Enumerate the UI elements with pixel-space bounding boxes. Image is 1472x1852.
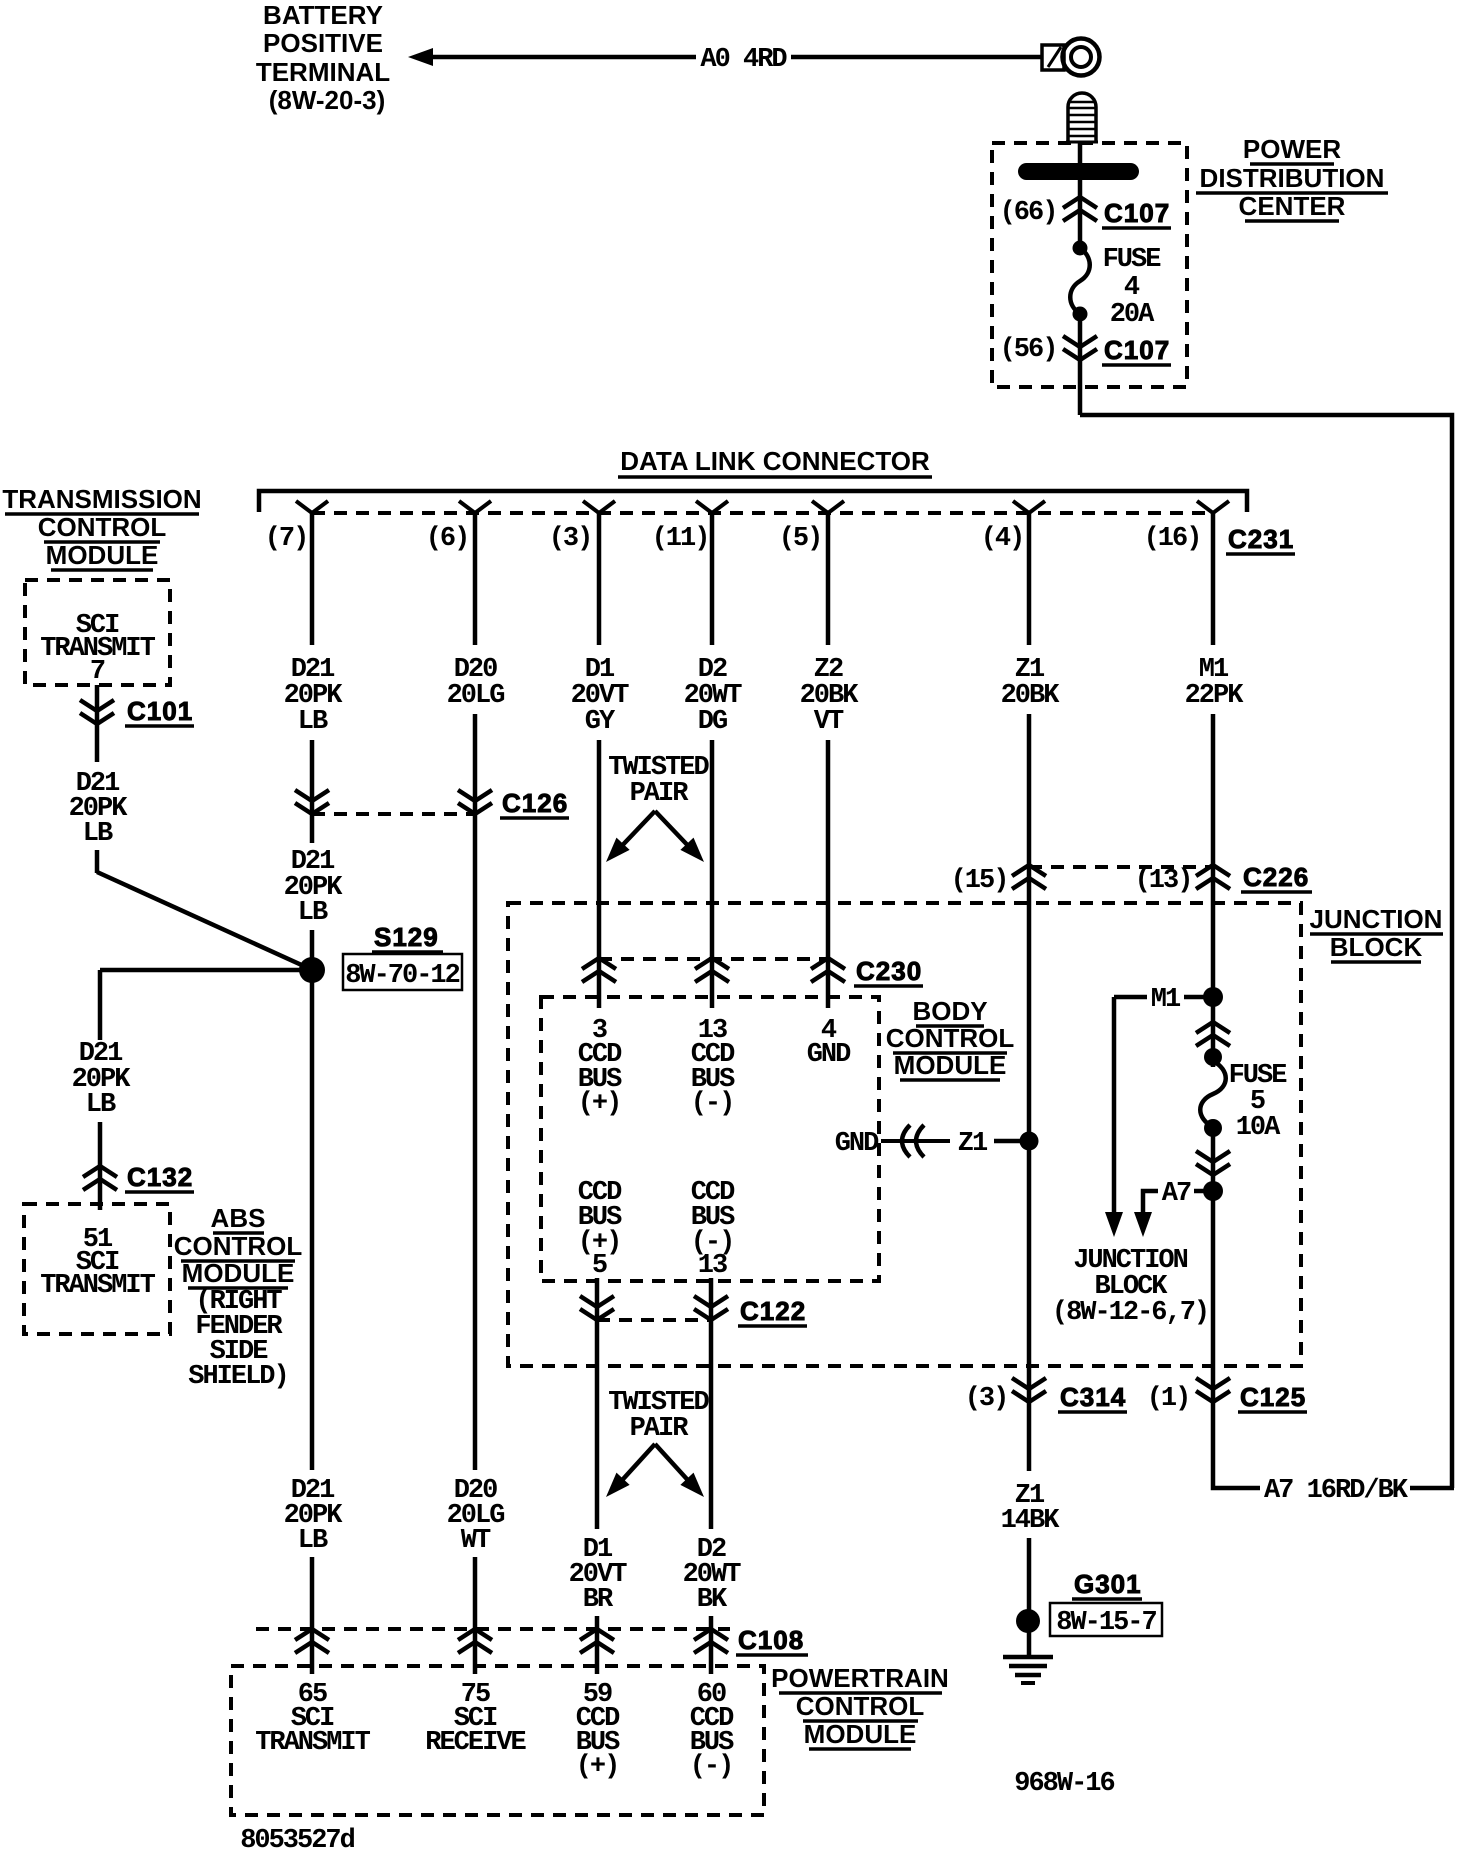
wire to C132 — [98, 1122, 103, 1210]
svg-text:(+): (+) — [576, 1752, 619, 1782]
svg-text:FUSE: FUSE — [1103, 245, 1162, 275]
svg-text:(56): (56) — [1000, 335, 1057, 365]
svg-text:968W-16: 968W-16 — [1014, 1769, 1114, 1799]
wire D21 splice to bottom label — [310, 930, 315, 1470]
wire D2 to C108 — [709, 1616, 714, 1674]
wire A0 4RD right segment — [791, 55, 1042, 60]
ground reference box 8W-15-7 — [1050, 1603, 1162, 1638]
svg-text:C101: C101 — [127, 696, 193, 726]
wire pin 6 long run — [473, 714, 478, 1470]
svg-text:TRANSMIT: TRANSMIT — [255, 1728, 370, 1758]
connector C230 symbol pin 3 — [582, 958, 616, 982]
junction GND on Z1 wire — [1020, 1132, 1039, 1151]
twisted pair callout lower — [608, 1388, 709, 1488]
svg-text:GY: GY — [585, 707, 616, 737]
connector label C314 — [1058, 1382, 1127, 1412]
PCM pin 75 SCI RECEIVE — [425, 1680, 526, 1758]
svg-text:8W-70-12: 8W-70-12 — [345, 961, 459, 991]
TCM pin label SCI TRANSMIT 7 — [40, 611, 155, 687]
transmission control module dashed box — [25, 580, 170, 685]
svg-text:C231: C231 — [1228, 524, 1294, 554]
svg-text:A7 16RD/BK: A7 16RD/BK — [1264, 1476, 1409, 1506]
svg-text:(8W-12-6,7): (8W-12-6,7) — [1052, 1298, 1208, 1328]
svg-text:GND: GND — [835, 1129, 879, 1159]
svg-text:DISTRIBUTION: DISTRIBUTION — [1200, 163, 1385, 193]
ground label G301 — [1072, 1569, 1142, 1599]
connector C122 dashed tie — [597, 1318, 711, 1322]
svg-text:4: 4 — [1124, 273, 1140, 303]
svg-text:14BK: 14BK — [1001, 1506, 1061, 1536]
svg-text:7: 7 — [90, 657, 105, 687]
svg-text:(1): (1) — [1147, 1384, 1190, 1414]
svg-text:(3): (3) — [965, 1384, 1008, 1414]
wire A0 4RD left segment — [429, 55, 696, 60]
connector fuse 5 input symbol — [1196, 1022, 1230, 1046]
fuse 4 bottom junction — [1073, 307, 1088, 322]
svg-text:(16): (16) — [1144, 524, 1201, 554]
svg-text:20A: 20A — [1110, 300, 1155, 330]
header DATA LINK CONNECTOR — [618, 446, 932, 477]
wire label Z1 14BK — [1001, 1481, 1061, 1536]
wire pin 5 upper — [826, 513, 831, 645]
svg-text:SHIELD): SHIELD) — [188, 1362, 287, 1392]
wire Z1 label to Z1 wire — [994, 1139, 1020, 1144]
arrow to battery positive terminal — [408, 48, 433, 66]
svg-text:ABS: ABS — [211, 1203, 266, 1233]
wire busbar to fuse — [1078, 180, 1083, 250]
svg-text:8W-15-7: 8W-15-7 — [1056, 1608, 1156, 1638]
svg-text:MODULE: MODULE — [46, 540, 159, 570]
svg-text:13: 13 — [698, 1251, 727, 1281]
DLC pin 6 fork — [459, 501, 491, 513]
svg-text:PAIR: PAIR — [630, 779, 690, 809]
connector label C108 — [736, 1625, 808, 1655]
wire A7 16RD/BK to right rail — [1410, 1486, 1454, 1491]
svg-text:MODULE: MODULE — [804, 1719, 917, 1749]
bolt (threaded stud) — [1066, 93, 1098, 143]
svg-text:C125: C125 — [1240, 1382, 1306, 1412]
DLC pin 3 fork — [583, 501, 615, 513]
svg-text:(8W-20-3): (8W-20-3) — [269, 85, 386, 115]
ground junction G301 — [1016, 1609, 1040, 1633]
svg-text:(-): (-) — [691, 1089, 734, 1119]
wire pin 4 upper — [1027, 513, 1032, 645]
wire D21 below label — [95, 850, 100, 873]
wire label D20 20LG (pin 6) — [447, 655, 505, 711]
splice S129 — [299, 957, 325, 983]
svg-text:BLOCK: BLOCK — [1330, 932, 1423, 962]
wire splice branch horizontal — [100, 968, 312, 973]
wire Z1 below C314 — [1027, 1402, 1032, 1471]
svg-text:BODY: BODY — [912, 996, 987, 1026]
wire label D1 20VT BR — [569, 1535, 628, 1615]
BCM pin 13 CCD BUS (-) — [691, 1016, 735, 1119]
wire label D2 20WT BK — [683, 1535, 742, 1615]
connector C230 dashed tie — [599, 957, 828, 961]
connector C230 symbol pin 4 — [811, 958, 845, 982]
svg-text:20BK: 20BK — [1001, 681, 1061, 711]
svg-text:CENTER: CENTER — [1239, 191, 1346, 221]
svg-text:(7): (7) — [265, 524, 308, 554]
powertrain control module dashed box — [231, 1666, 764, 1815]
wire A7 tap left — [1143, 1191, 1158, 1212]
svg-text:10A: 10A — [1236, 1113, 1281, 1143]
svg-text:DATA LINK CONNECTOR: DATA LINK CONNECTOR — [620, 446, 930, 476]
svg-text:Z1: Z1 — [958, 1129, 988, 1159]
header JUNCTION BLOCK — [1310, 904, 1443, 962]
arrow M1 to junction block — [1105, 1212, 1123, 1237]
svg-text:LB: LB — [298, 707, 328, 737]
connector label C226 — [1241, 862, 1312, 892]
wire D21 to C108 — [310, 1557, 315, 1674]
svg-text:A0 4RD: A0 4RD — [700, 45, 787, 75]
wire PDC output to right rail — [1080, 415, 1452, 1488]
wire pin 3 upper — [597, 513, 602, 645]
wire fuse 5 to C125 — [1211, 1128, 1216, 1402]
svg-text:(5): (5) — [779, 524, 822, 554]
svg-text:C122: C122 — [740, 1296, 806, 1326]
DLC pin 4 fork — [1013, 501, 1045, 513]
wire label D21 20PK LB (lower) — [284, 1476, 344, 1556]
connector C108 symbol pin 65 — [295, 1629, 329, 1653]
svg-text:LB: LB — [298, 1526, 328, 1556]
connector label C122 — [738, 1296, 807, 1326]
svg-text:TERMINAL: TERMINAL — [256, 57, 390, 87]
wire label Z2 20BK VT — [800, 655, 860, 737]
svg-text:CONTROL: CONTROL — [174, 1231, 303, 1261]
svg-text:5: 5 — [592, 1251, 607, 1281]
busbar (battery feed bus) — [1018, 163, 1139, 180]
header BODY CONTROL MODULE — [886, 996, 1015, 1080]
svg-text:(4): (4) — [981, 524, 1024, 554]
wire BCM pin 5 to C122 — [595, 1278, 600, 1320]
svg-text:A7: A7 — [1162, 1179, 1191, 1209]
svg-text:(13): (13) — [1135, 866, 1192, 896]
data link connector bracket — [259, 491, 1247, 512]
wire label D21 20PK LB (below C101) — [69, 769, 129, 849]
svg-text:CONTROL: CONTROL — [38, 512, 167, 542]
connector C122 symbol pin a — [580, 1296, 614, 1320]
svg-text:C107: C107 — [1104, 335, 1170, 365]
svg-text:(6): (6) — [426, 524, 469, 554]
wire pin 7 to C126 — [310, 740, 315, 843]
fuse 5 bottom junction — [1204, 1119, 1222, 1137]
svg-text:LB: LB — [83, 819, 113, 849]
ABS pin label 51 SCI TRANSMIT — [40, 1225, 155, 1301]
connector C108 symbol pin 59 — [580, 1629, 614, 1653]
svg-text:(+): (+) — [578, 1089, 621, 1119]
twisted pair arrow lower left — [599, 1473, 629, 1504]
svg-text:LB: LB — [86, 1090, 116, 1120]
svg-text:LB: LB — [298, 898, 328, 928]
connector C126 symbol pin b — [458, 790, 492, 814]
node BATTERY POSITIVE TERMINAL label — [256, 0, 390, 115]
svg-text:BATTERY: BATTERY — [263, 0, 383, 30]
fuse 5 top junction — [1204, 1048, 1222, 1066]
connector label C132 — [125, 1162, 194, 1192]
fuse 5 element — [1200, 1061, 1226, 1127]
PCM pin 60 CCD BUS (-) — [690, 1680, 734, 1782]
wire M1 tap left — [1114, 995, 1147, 1000]
wire D1 C122 to label — [595, 1320, 600, 1529]
svg-text:(66): (66) — [1000, 198, 1057, 228]
wire D2 C122 to label — [709, 1320, 714, 1529]
wire splice branch down — [98, 970, 103, 1040]
connector C122 symbol pin b — [694, 1296, 728, 1320]
connector C126 dashed tie — [312, 812, 475, 816]
svg-text:G301: G301 — [1074, 1569, 1142, 1599]
connector C314 symbol — [1012, 1378, 1046, 1402]
svg-text:POWER: POWER — [1243, 134, 1341, 164]
connector label C107 (top) — [1102, 198, 1171, 228]
label JUNCTION BLOCK (8W-12-6,7) — [1052, 1246, 1208, 1328]
header POWERTRAIN CONTROL MODULE — [771, 1663, 949, 1749]
wire label D21 20PK LB (below C126) — [284, 847, 344, 928]
wire Z1 to ground — [1027, 1538, 1032, 1657]
svg-text:C107: C107 — [1104, 198, 1170, 228]
junction block outer dashed box — [508, 903, 1301, 1366]
wire BCM pin 13 to C122 — [709, 1278, 714, 1320]
connector C226 symbol pin 15 — [1012, 865, 1046, 889]
svg-text:VT: VT — [814, 707, 844, 737]
power distribution center dashed box — [992, 143, 1187, 387]
svg-text:DG: DG — [698, 707, 727, 737]
splice label S129 — [372, 922, 443, 952]
svg-text:POSITIVE: POSITIVE — [263, 28, 383, 58]
svg-text:JUNCTION: JUNCTION — [1310, 904, 1443, 934]
ring terminal (eyelet) — [1042, 39, 1100, 76]
svg-text:(15): (15) — [951, 866, 1008, 896]
svg-text:(11): (11) — [652, 524, 709, 554]
connector C101 symbol — [80, 700, 114, 724]
connector label C231 — [1226, 524, 1295, 554]
connector C125 symbol — [1196, 1378, 1230, 1402]
BCM pin 3 CCD BUS (+) — [578, 1016, 622, 1119]
twisted pair arrow lower right — [680, 1473, 710, 1504]
svg-text:PAIR: PAIR — [630, 1414, 690, 1444]
connector fuse 5 output symbol — [1196, 1151, 1230, 1175]
connector label C125 — [1238, 1382, 1307, 1412]
wire label D20 20LG WT (lower) — [447, 1476, 505, 1556]
wire label M1 22PK — [1185, 655, 1245, 711]
wire C125 down to A7 16RD/BK — [1213, 1402, 1260, 1488]
svg-text:S129: S129 — [374, 922, 439, 952]
wire pin 7 upper — [310, 513, 315, 645]
twisted pair arrow upper right — [680, 838, 710, 869]
svg-text:M1: M1 — [1151, 985, 1181, 1015]
fuse 4 top junction — [1073, 241, 1088, 256]
PCM pin 59 CCD BUS (+) — [576, 1680, 620, 1782]
svg-text:C230: C230 — [856, 956, 922, 986]
wire label D21 20PK LB (left branch) — [72, 1039, 132, 1120]
PCM pin 65 SCI TRANSMIT — [255, 1680, 370, 1758]
ABS control module dashed box — [24, 1204, 170, 1334]
svg-text:BK: BK — [697, 1585, 728, 1615]
wire pin 5 to C230 — [826, 740, 831, 1008]
BCM pin 4 GND — [807, 1016, 851, 1070]
svg-text:(-): (-) — [690, 1752, 733, 1782]
wire pin 3 to C230 — [597, 740, 602, 1008]
header TRANSMISSION CONTROL MODULE — [2, 484, 201, 570]
splice reference box 8W-70-12 — [343, 954, 462, 991]
fuse 4 element — [1070, 248, 1090, 314]
wire pin 16 upper — [1211, 513, 1216, 645]
svg-text:C132: C132 — [127, 1162, 193, 1192]
svg-text:GND: GND — [807, 1040, 851, 1070]
connector label C126 — [500, 788, 569, 818]
twisted pair callout upper — [608, 753, 709, 853]
header ABS CONTROL MODULE (RIGHT FENDER SIDE SHIELD) — [174, 1203, 303, 1392]
fuse 5 value label — [1229, 1061, 1288, 1143]
wire D1 to C108 — [595, 1616, 600, 1674]
wire M1 tap right — [1184, 995, 1206, 1000]
svg-text:WT: WT — [461, 1526, 491, 1556]
wire pin 11 upper — [710, 513, 715, 645]
DLC pin 11 fork — [696, 501, 728, 513]
svg-text:C108: C108 — [738, 1625, 804, 1655]
data link connector dashed tie C231 — [312, 511, 1213, 515]
svg-text:(3): (3) — [549, 524, 592, 554]
connector C107 pin 66 symbol — [1063, 197, 1097, 221]
connector C126 symbol pin a — [295, 790, 329, 814]
connector label C230 — [854, 956, 923, 986]
svg-text:RECEIVE: RECEIVE — [425, 1728, 526, 1758]
svg-text:20LG: 20LG — [447, 681, 505, 711]
wire pin 4 to C314 — [1027, 714, 1032, 1402]
connector C108 dashed tie — [256, 1627, 730, 1631]
connector C226 dashed tie — [1029, 865, 1213, 869]
svg-text:C126: C126 — [502, 788, 568, 818]
connector label C107 (bottom) — [1102, 335, 1171, 365]
junction M1 tap — [1203, 987, 1223, 1007]
wire label D21 20PK LB (pin 7) — [284, 655, 344, 737]
wire D20 to C108 — [473, 1557, 478, 1674]
svg-text:8053527d: 8053527d — [240, 1826, 354, 1852]
wire label D2 20WT DG — [684, 655, 743, 737]
DLC pin 7 fork — [296, 501, 328, 513]
wire fuse to C107 pin 56 — [1078, 316, 1083, 415]
wire label D1 20VT GY — [571, 655, 630, 737]
BCM pin CCD BUS (-) 13 — [691, 1178, 735, 1281]
BCM GND connector symbol — [881, 1125, 950, 1157]
svg-text:22PK: 22PK — [1185, 681, 1245, 711]
wire pin 16 to fuse 5 — [1211, 714, 1216, 1067]
connector C108 symbol pin 75 — [458, 1629, 492, 1653]
ground symbol G301 — [1003, 1657, 1053, 1683]
DLC pin 16 fork — [1197, 501, 1229, 513]
header POWER DISTRIBUTION CENTER — [1196, 134, 1388, 221]
DLC pin 5 fork — [812, 501, 844, 513]
junction A7 tap — [1203, 1181, 1223, 1201]
twisted pair arrow upper left — [599, 838, 629, 869]
svg-text:C226: C226 — [1243, 862, 1309, 892]
connector C108 symbol pin 60 — [694, 1629, 728, 1653]
svg-text:C314: C314 — [1060, 1382, 1126, 1412]
wire M1 tap down — [1112, 997, 1117, 1212]
connector label C101 — [125, 696, 194, 726]
body control module dashed box — [541, 997, 879, 1281]
connector C226 symbol pin 13 — [1196, 865, 1230, 889]
connector C132 symbol — [83, 1166, 117, 1190]
arrow A7 to junction block — [1134, 1212, 1152, 1237]
wire TCM to C101 — [95, 685, 100, 762]
svg-text:POWERTRAIN: POWERTRAIN — [771, 1663, 949, 1693]
wire label Z1 20BK — [1001, 655, 1061, 711]
svg-text:CONTROL: CONTROL — [796, 1691, 925, 1721]
wire bolt to busbar — [1078, 142, 1083, 165]
wire D21 diagonal to splice S129 — [97, 872, 306, 967]
fuse 4 value label — [1103, 245, 1162, 330]
wire pin 11 to C230 — [710, 740, 715, 1008]
connector C107 pin 56 symbol — [1063, 336, 1097, 360]
BCM pin CCD BUS (+) 5 — [578, 1178, 622, 1281]
wire A7 tap right — [1194, 1189, 1206, 1194]
svg-text:BR: BR — [583, 1585, 614, 1615]
svg-text:TRANSMIT: TRANSMIT — [40, 1271, 155, 1301]
connector C230 symbol pin 13 — [695, 958, 729, 982]
wire pin 6 upper — [473, 513, 478, 645]
svg-text:TRANSMISSION: TRANSMISSION — [2, 484, 201, 514]
